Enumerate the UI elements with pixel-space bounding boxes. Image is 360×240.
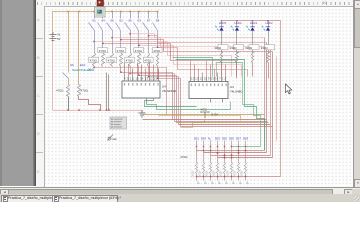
switch S6 blade — [107, 23, 113, 31]
wire segment column 4 — [217, 141, 219, 163]
wire switch S6 to resistor — [112, 31, 114, 53]
label R8 470ohm — [152, 48, 162, 53]
label RL4 330ohm — [265, 45, 275, 50]
pin U3 top 7 — [214, 77, 216, 82]
svg-text:SE1: SE1 — [194, 137, 200, 141]
status bar resize grip — [354, 196, 359, 201]
component button — [95, 7, 106, 17]
node display feeder junction 7 — [238, 176, 240, 178]
wire VCC drop to switch S9 — [68, 12, 70, 73]
pin U4 bottom 7 — [146, 99, 148, 105]
wire U4 pin9 up — [158, 69, 160, 77]
pin U3 top 8 — [217, 77, 219, 82]
wire LED2 to resistor — [268, 31, 270, 53]
ruler corner — [36, 0, 44, 6]
node fanB tap 6 — [148, 76, 149, 77]
resistor RS3 — [210, 163, 212, 174]
wire mux input net from R8 — [158, 67, 181, 127]
node ground junctions — [67, 109, 69, 111]
wire select net A — [173, 58, 213, 77]
resistor RL3 330ohm — [252, 53, 254, 63]
node rail junction S1 — [93, 11, 95, 13]
LED LED3 — [250, 27, 254, 30]
wire switch S8 to resistor — [157, 31, 159, 53]
wire U4 pin8 up — [153, 65, 155, 77]
pin U4 top 9 — [158, 77, 160, 81]
svg-text:5.0V: 5.0V — [212, 113, 219, 117]
label RL3 330ohm — [249, 45, 259, 50]
svg-text:470Ω: 470Ω — [108, 58, 116, 62]
node display feeder junction 6 — [231, 176, 233, 178]
svg-text:DIS1Y: DIS1Y — [220, 170, 223, 178]
svg-text:330Ω: 330Ω — [214, 46, 222, 50]
panel edge shadow — [33, 0, 36, 186]
wire bus mid segment 3 — [177, 122, 269, 124]
wire RL1 down — [221, 63, 223, 77]
wire U3 pin2 up — [194, 65, 196, 77]
svg-text:a2: a2 — [218, 182, 221, 185]
pin U3 top 4 — [202, 77, 204, 82]
pin U4 top 3 — [132, 77, 134, 81]
svg-text:SE7: SE7 — [236, 137, 242, 141]
wire right bus vertical 3 — [272, 52, 274, 158]
ground symbol — [139, 110, 146, 117]
svg-text:74LS151D: 74LS151D — [162, 89, 177, 93]
wire rail to switch S7 — [148, 12, 150, 19]
wire green IC1 loop — [145, 101, 197, 107]
pin U4 top 8 — [153, 77, 155, 81]
label R3 470ohm — [107, 57, 117, 62]
wire data net D3 from switch S2 — [121, 40, 273, 52]
pin U3 top 3 — [198, 77, 200, 82]
wire select net D — [217, 63, 261, 147]
wire VCC drop to resistor branch — [78, 12, 80, 85]
svg-text:SE4: SE4 — [201, 137, 207, 141]
wire right bus vertical 0 — [264, 38, 266, 151]
svg-text:S10: S10 — [88, 68, 94, 72]
wire RS6 to display — [231, 174, 233, 181]
window bottom frame — [0, 201, 360, 202]
svg-text:LED5: LED5 — [219, 21, 226, 25]
svg-text:74LS48D: 74LS48D — [230, 90, 243, 94]
wire RS8 to display — [245, 174, 247, 181]
wire VCC to U3 — [181, 119, 205, 128]
wire RS4 to display — [217, 174, 219, 181]
label R1 470ohm — [89, 57, 99, 62]
LED LED2 arrows — [262, 26, 265, 31]
LED LED4 — [235, 27, 239, 30]
switch S4 blade — [98, 23, 103, 31]
wire RS1 to display — [196, 174, 198, 181]
wire bus mid segment 4 — [179, 124, 271, 126]
node fanB tap 7 — [157, 78, 158, 79]
pin U3 top 9 — [221, 77, 223, 82]
node tap D2 — [111, 37, 112, 38]
node display feeder junction 4 — [217, 176, 219, 178]
node tap D1 — [148, 35, 149, 36]
panel left edge — [0, 0, 2, 186]
wire LED4 to resistor — [236, 31, 238, 53]
svg-text:330Ω: 330Ω — [230, 46, 238, 50]
svg-text:330Ω: 330Ω — [261, 46, 269, 50]
svg-text:DIS1Y: DIS1Y — [234, 170, 237, 178]
wire U3 pin8 up — [217, 73, 219, 77]
wire U4 pin6 up — [145, 69, 147, 77]
op-amp U3 74LS48D body — [189, 82, 228, 99]
svg-text:SE6: SE6 — [229, 137, 235, 141]
wire U3 pin7 up — [214, 69, 216, 77]
mouse cursor — [286, 84, 292, 94]
node rail junction S2 — [120, 11, 122, 13]
switch S7 blade — [143, 23, 149, 31]
svg-text:DIS1Y: DIS1Y — [199, 170, 202, 178]
horizontal scrollbar — [0, 187, 360, 195]
resistor RS2 — [203, 163, 205, 174]
node rail junction S3 — [138, 11, 140, 13]
wire RS7 to display — [238, 174, 240, 181]
pin U4 bottom 10 — [153, 99, 155, 101]
wire feeder to LED2 — [268, 21, 270, 27]
pin U3 bottom 8 — [210, 99, 212, 103]
wire bus mid segment 5 — [181, 126, 273, 128]
node feeder junction LED5 — [221, 20, 223, 22]
svg-text:DIS1Y: DIS1Y — [213, 170, 216, 178]
pin U3 top 2 — [194, 77, 196, 82]
node tap D0 — [129, 33, 130, 34]
wire segment column 3 — [210, 141, 212, 163]
selection tooltip — [110, 117, 127, 129]
switch S1 blade — [89, 23, 95, 31]
wire right bus vertical 2 — [270, 47, 272, 156]
wire segment column 6 — [231, 141, 233, 163]
wire U4 pin4 up — [137, 63, 139, 77]
vertical scrollbar — [353, 0, 360, 187]
wire mux input net from R5 — [131, 67, 175, 122]
svg-text:a2: a2 — [197, 182, 200, 185]
svg-text:470Ω: 470Ω — [135, 49, 143, 53]
node display feeder junction 5 — [224, 176, 226, 178]
svg-text:VCC: VCC — [201, 108, 208, 112]
svg-text:SE5: SE5 — [222, 137, 228, 141]
wire data net D2 from switch S6 — [113, 38, 271, 47]
wire right bus to display row 2 — [211, 155, 271, 157]
resistor RS4 — [217, 163, 219, 174]
svg-text:SE3: SE3 — [215, 137, 221, 141]
wire U3 pin1 up — [190, 61, 192, 77]
svg-text:DIS1Y: DIS1Y — [192, 170, 195, 178]
wire mux input net from R4 — [121, 67, 173, 120]
node tap D5 — [102, 43, 103, 44]
resistor R1 470ohm — [93, 53, 96, 67]
wire U3 pin9 up — [221, 61, 223, 77]
wire rail to switch S5 — [130, 12, 132, 19]
wire U3 pin5 up — [206, 61, 208, 77]
wire mux input net from R6 — [139, 67, 177, 123]
wire RS3 to display — [210, 174, 212, 181]
svg-text:470Ω: 470Ω — [180, 155, 188, 159]
wire branch2 resistor to bend — [79, 97, 101, 111]
wire feeder to LED5 — [221, 21, 223, 27]
resistor RL1 330ohm — [221, 53, 223, 63]
wire segment column 2 — [203, 141, 205, 163]
node feeder junction LED3 — [252, 20, 254, 22]
resistor RS6 — [231, 163, 233, 174]
LED LED4 arrows — [231, 26, 234, 31]
svg-text:S7: S7 — [147, 19, 151, 23]
canvas with dotted grid — [45, 7, 353, 187]
svg-text:a2: a2 — [204, 182, 207, 185]
node rail junction S4 — [102, 11, 104, 13]
wire rail to switch S6 — [112, 12, 114, 19]
switch S9 blade — [63, 73, 69, 79]
wire pale vertical net — [276, 57, 278, 141]
wire switch S2 to resistor — [120, 31, 122, 53]
resistor RS8 — [245, 163, 247, 174]
wire right bus vertical 1 — [266, 43, 268, 153]
resistor RS1 — [196, 163, 198, 174]
resistor R8 470ohm — [157, 53, 159, 67]
wire data net D0 from switch S5 — [131, 34, 265, 38]
node bank column top dots — [196, 146, 197, 147]
svg-text:a2: a2 — [246, 182, 249, 185]
wire rail to switch S8 — [157, 12, 159, 19]
wire olive bottom run — [159, 116, 241, 121]
wire rail to switch S3 — [138, 12, 140, 19]
svg-text:470Ω: 470Ω — [99, 49, 107, 53]
wire data net D7 from switch S8 — [158, 48, 248, 77]
left panel — [0, 0, 33, 186]
wire switch S3 to resistor — [138, 31, 140, 53]
wire select net B — [176, 60, 265, 151]
wire switch S1 to resistor — [94, 31, 96, 53]
wire switch S7 to resistor — [148, 31, 150, 53]
battery V1 — [50, 32, 57, 41]
svg-text:5V: 5V — [57, 37, 61, 41]
node fanB tap 5 — [138, 75, 139, 76]
wire bus mid segment 1 — [143, 119, 267, 121]
wire rail to switch S1 — [94, 12, 96, 19]
wire U4 pin5 up — [141, 65, 143, 77]
wire segment column 7 — [238, 141, 240, 163]
wire VCC rail — [53, 12, 159, 42]
wire U3 pin10 up — [225, 65, 227, 77]
svg-text:AL: AL — [208, 137, 212, 141]
svg-text:S4: S4 — [101, 19, 105, 23]
pin U4 top 7 — [149, 77, 151, 81]
node feeder junction LED2 — [267, 20, 269, 22]
pin U4 top 2 — [128, 77, 130, 81]
label RL1 330ohm — [218, 45, 228, 50]
svg-text:470Ω: 470Ω — [56, 89, 64, 93]
svg-text:S1: S1 — [92, 19, 96, 23]
sheet tab bar — [0, 194, 360, 202]
resistor R5 470ohm — [129, 53, 132, 67]
svg-text:DIS1Y: DIS1Y — [227, 170, 230, 178]
svg-text:S9: S9 — [70, 63, 74, 67]
svg-text:DIS1Y: DIS1Y — [206, 170, 209, 178]
svg-text:U4: U4 — [162, 85, 166, 89]
label R7 470ohm — [143, 57, 153, 62]
top ruler — [36, 0, 353, 7]
wire RS2 to display — [203, 174, 205, 181]
pin U4 top 4 — [137, 77, 139, 81]
wire U3 pin3 up — [198, 69, 200, 77]
pin U4 top 5 — [141, 77, 143, 81]
svg-text:V1: V1 — [57, 33, 61, 37]
node tap D4 — [93, 41, 94, 42]
LED LED3 arrows — [246, 26, 249, 31]
pin names U4 — [124, 83, 159, 86]
wire data net D5 from switch S4 — [103, 44, 237, 77]
node display feeder junction 3 — [210, 176, 212, 178]
wire right bus to display row 0 — [197, 150, 265, 152]
LED LED2 — [266, 27, 270, 30]
label R5 470ohm — [125, 57, 135, 62]
node display feeder junction 8 — [245, 176, 247, 178]
wire LED5 to resistor — [221, 31, 223, 53]
switch S8 blade — [153, 23, 158, 31]
wire rail to switch S2 — [120, 12, 122, 19]
pin U3 bottom 5 — [222, 99, 224, 103]
resistor RL4 330ohm — [267, 53, 270, 63]
svg-text:LED3: LED3 — [250, 21, 257, 25]
svg-text:DIS1Y: DIS1Y — [241, 170, 244, 178]
label R4 470ohm — [116, 48, 126, 53]
red toolbar icon — [97, 0, 104, 6]
node rail junction branch2 — [78, 11, 80, 13]
resistor R10 470ohm — [78, 85, 81, 97]
resistor RS5 — [224, 163, 226, 174]
wire mux input net from R1 — [95, 67, 167, 115]
wire RS5 to display — [224, 174, 226, 181]
wire ground net — [53, 110, 143, 112]
resistor RS7 — [238, 163, 240, 174]
resistor R6 470ohm — [138, 53, 141, 67]
switch S5 blade — [125, 23, 131, 31]
label RL2 330ohm — [234, 45, 244, 50]
node tap D7 — [157, 47, 158, 48]
svg-text:470Ω: 470Ω — [90, 58, 98, 62]
wire U3 pin6 up — [210, 65, 212, 77]
wire segment column 5 — [224, 141, 226, 163]
node display feeder junction 2 — [203, 176, 205, 178]
resistor R9 470ohm — [67, 85, 70, 97]
LED LED5 arrows — [215, 26, 218, 31]
svg-text:a2: a2 — [232, 182, 235, 185]
wire right bus to display row 3 — [218, 157, 273, 159]
node feeder junction LED4 — [236, 20, 238, 22]
wire S9 lower to resistor — [68, 79, 70, 85]
pin U3 top 10 — [225, 77, 227, 82]
wire mux input net from R7 — [149, 67, 179, 125]
svg-text:U3: U3 — [230, 85, 234, 89]
power VCC — [200, 112, 210, 118]
svg-text:470Ω: 470Ω — [153, 49, 161, 53]
wire feeder to LED3 — [252, 21, 254, 27]
wire R9 to ground — [68, 97, 70, 111]
pin U3 top 6 — [210, 77, 212, 82]
wire select taps down — [106, 73, 108, 111]
wire U4 pin3 up — [132, 69, 134, 77]
LED LED5 — [219, 27, 223, 30]
wire data net D6 from switch S3 — [139, 46, 242, 77]
pin U4 top 6 — [145, 77, 147, 81]
wire RL2 down — [236, 63, 238, 79]
svg-text:a2: a2 — [225, 182, 228, 185]
node rail junction S5 — [129, 11, 131, 13]
svg-text:S6: S6 — [110, 19, 114, 23]
wire segment column 1 — [196, 141, 198, 163]
node tap D6 — [138, 45, 139, 46]
node feeder-rail junction — [267, 20, 269, 22]
label R6 470ohm — [134, 48, 144, 53]
svg-text:E10: E10 — [80, 63, 86, 67]
svg-text:LED4: LED4 — [235, 21, 242, 25]
node rail junction S8 — [157, 11, 159, 13]
wire RL4 down — [268, 63, 270, 79]
resistor R3 470ohm — [111, 53, 114, 67]
wire right bus to display row 1 — [204, 152, 267, 154]
node bank row extra dots — [203, 150, 204, 151]
resistor R7 470ohm — [148, 53, 150, 67]
svg-text:S2: S2 — [119, 19, 123, 23]
op-amp U4 74LS151D body — [122, 81, 160, 98]
wire LED feeder — [197, 21, 281, 177]
svg-text:a2: a2 — [239, 182, 242, 185]
wire feeder to LED4 — [236, 21, 238, 27]
node tap D3 — [120, 39, 121, 40]
svg-text:470Ω: 470Ω — [126, 58, 134, 62]
node fanB tap 3 — [120, 71, 121, 72]
node display feeder junction 1 — [196, 176, 198, 178]
wire segment column 8 — [245, 141, 247, 163]
resistor RL2 330ohm — [236, 53, 239, 63]
pin U3 top 5 — [206, 77, 208, 82]
resistor R4 470ohm — [120, 53, 123, 67]
pin U4 top 1 — [124, 77, 126, 81]
pin names U3 — [191, 84, 227, 87]
node rail junction S6 — [111, 11, 113, 13]
wire data net D4 from switch S1 — [95, 42, 232, 77]
wire RL3 down — [252, 63, 254, 77]
svg-text:a2: a2 — [211, 182, 214, 185]
wire LED3 to resistor — [252, 31, 254, 53]
wire bus mid segment 0 — [143, 114, 265, 116]
switch S2 blade — [116, 23, 121, 31]
wire data net D1 from switch S7 — [149, 36, 267, 43]
svg-text:S8: S8 — [156, 19, 160, 23]
svg-text:S5: S5 — [128, 19, 132, 23]
svg-text:470Ω: 470Ω — [144, 58, 152, 62]
pin U3 top 1 — [190, 77, 192, 82]
left ruler — [36, 6, 45, 187]
svg-text:LED2: LED2 — [266, 21, 273, 25]
node display row junctions — [245, 150, 247, 152]
wire switch S5 to resistor — [130, 31, 132, 53]
svg-text:330Ω: 330Ω — [245, 46, 253, 50]
wire bus mid segment 2 — [175, 121, 268, 123]
svg-text:470Ω: 470Ω — [117, 49, 125, 53]
node rail junction S9 — [67, 11, 69, 13]
svg-text:SE8: SE8 — [243, 137, 249, 141]
node fanB tap 0 — [93, 67, 94, 68]
node rail junction S7 — [148, 11, 150, 13]
svg-text:470Ω: 470Ω — [81, 89, 89, 93]
wire U4 pin7 up — [149, 63, 151, 77]
wire U4 pin1 up — [124, 63, 126, 77]
label R2 470ohm — [98, 48, 108, 53]
wire U3 pin4 up — [202, 73, 204, 77]
